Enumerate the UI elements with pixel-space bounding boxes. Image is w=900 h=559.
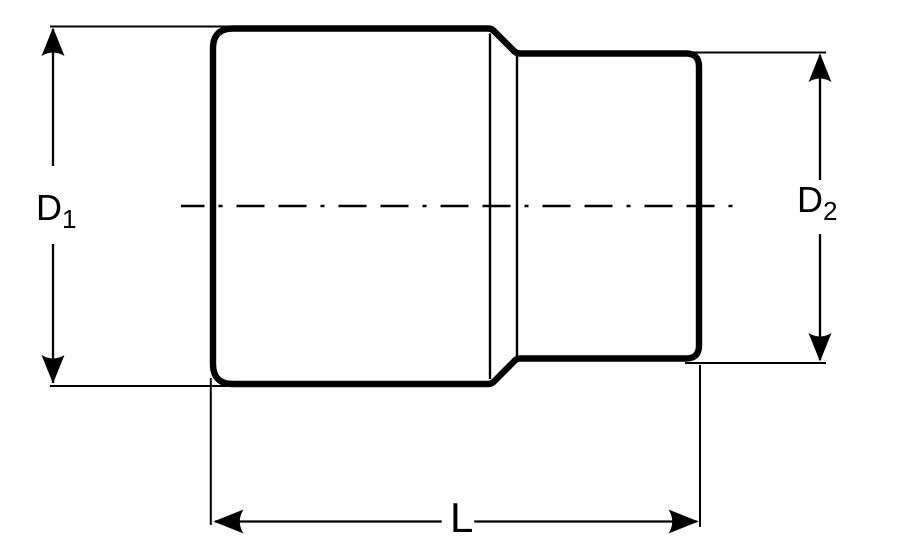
extension line top-left (D1 top) xyxy=(50,26,229,28)
dimension line L (right segment) xyxy=(474,520,697,522)
dimension line D1 (upper segment) xyxy=(52,29,54,166)
arrowhead L left xyxy=(214,510,244,534)
socket body outline (large cylinder, chamfer, small cylinder) xyxy=(213,29,699,385)
dimension line D1 (lower segment) xyxy=(52,244,54,383)
extension line top-right (D2 top) xyxy=(689,52,826,54)
arrowhead D1 up xyxy=(42,28,65,57)
extension line bottom-left (D1 bottom) xyxy=(50,385,227,387)
svg-text:L: L xyxy=(450,494,473,541)
arrowhead L right xyxy=(669,510,699,534)
extension line bottom-right vertical (L right) xyxy=(699,365,701,527)
junction edge line at small-cylinder start xyxy=(516,56,518,356)
arrowhead D2 up xyxy=(809,54,832,83)
arrowhead D2 down xyxy=(809,333,832,362)
dimension line D2 (upper segment) xyxy=(819,55,821,180)
extension line bottom-left vertical (L left) xyxy=(210,378,212,525)
junction edge line at large-cylinder end xyxy=(489,34,491,380)
dimension line D2 (lower segment) xyxy=(819,234,821,360)
svg-text:D2: D2 xyxy=(797,179,837,226)
svg-text:D1: D1 xyxy=(36,187,76,234)
extension line bottom-right (D2 bottom) xyxy=(685,362,826,364)
dimension line L (left segment) xyxy=(215,520,442,522)
arrowhead D1 down xyxy=(42,355,65,384)
centerline (dash-dot axis) xyxy=(181,205,734,207)
